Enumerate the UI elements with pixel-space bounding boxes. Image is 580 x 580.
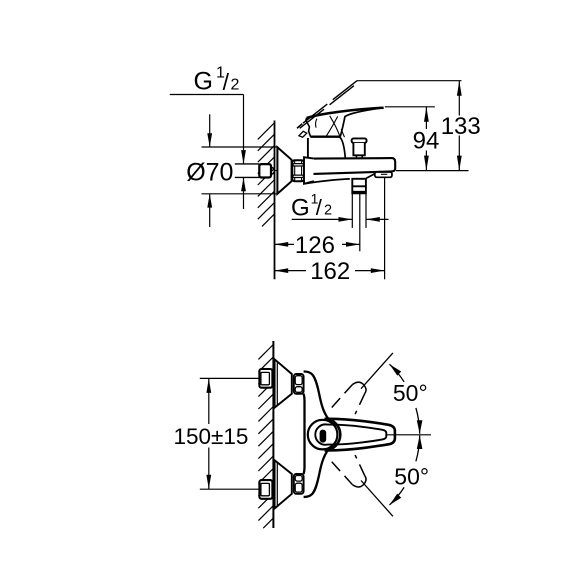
svg-text:G: G	[291, 195, 310, 222]
svg-text:G: G	[194, 68, 213, 96]
svg-text:/: /	[223, 69, 230, 95]
svg-text:150±15: 150±15	[174, 424, 249, 449]
svg-text:133: 133	[441, 113, 481, 140]
svg-text:126: 126	[295, 232, 335, 259]
svg-text:50°: 50°	[393, 380, 428, 406]
svg-text:50°: 50°	[394, 464, 429, 490]
svg-text:2: 2	[231, 77, 240, 94]
svg-text:/: /	[316, 195, 323, 220]
svg-text:94: 94	[413, 128, 440, 155]
svg-text:162: 162	[310, 258, 350, 285]
svg-text:2: 2	[324, 203, 332, 219]
svg-text:Ø70: Ø70	[186, 158, 233, 186]
